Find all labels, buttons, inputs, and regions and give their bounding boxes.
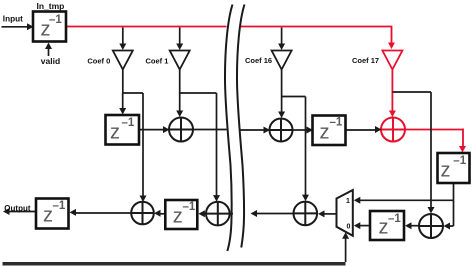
- svg-text:–1: –1: [53, 200, 66, 212]
- svg-text:z: z: [441, 160, 451, 182]
- svg-text:In_tmp: In_tmp: [37, 1, 65, 11]
- svg-text:Input: Input: [3, 14, 23, 23]
- svg-text:–1: –1: [122, 117, 135, 129]
- svg-text:–1: –1: [183, 201, 196, 213]
- svg-text:Coef 17: Coef 17: [352, 56, 379, 65]
- svg-text:z: z: [379, 217, 389, 239]
- svg-text:–1: –1: [388, 213, 401, 225]
- svg-text:0: 0: [347, 224, 351, 231]
- svg-text:Coef 16: Coef 16: [245, 56, 272, 65]
- svg-text:z: z: [43, 205, 53, 227]
- svg-text:–1: –1: [49, 14, 62, 26]
- svg-text:1: 1: [346, 198, 350, 205]
- svg-text:–1: –1: [453, 155, 466, 167]
- svg-text:z: z: [320, 122, 330, 144]
- svg-text:Coef 1: Coef 1: [146, 57, 169, 66]
- svg-text:z: z: [110, 122, 120, 144]
- svg-text:z: z: [173, 206, 183, 228]
- svg-text:Coef 0: Coef 0: [87, 57, 110, 66]
- svg-text:Output: Output: [4, 204, 31, 213]
- svg-text:–1: –1: [330, 117, 343, 129]
- svg-text:valid: valid: [41, 56, 60, 66]
